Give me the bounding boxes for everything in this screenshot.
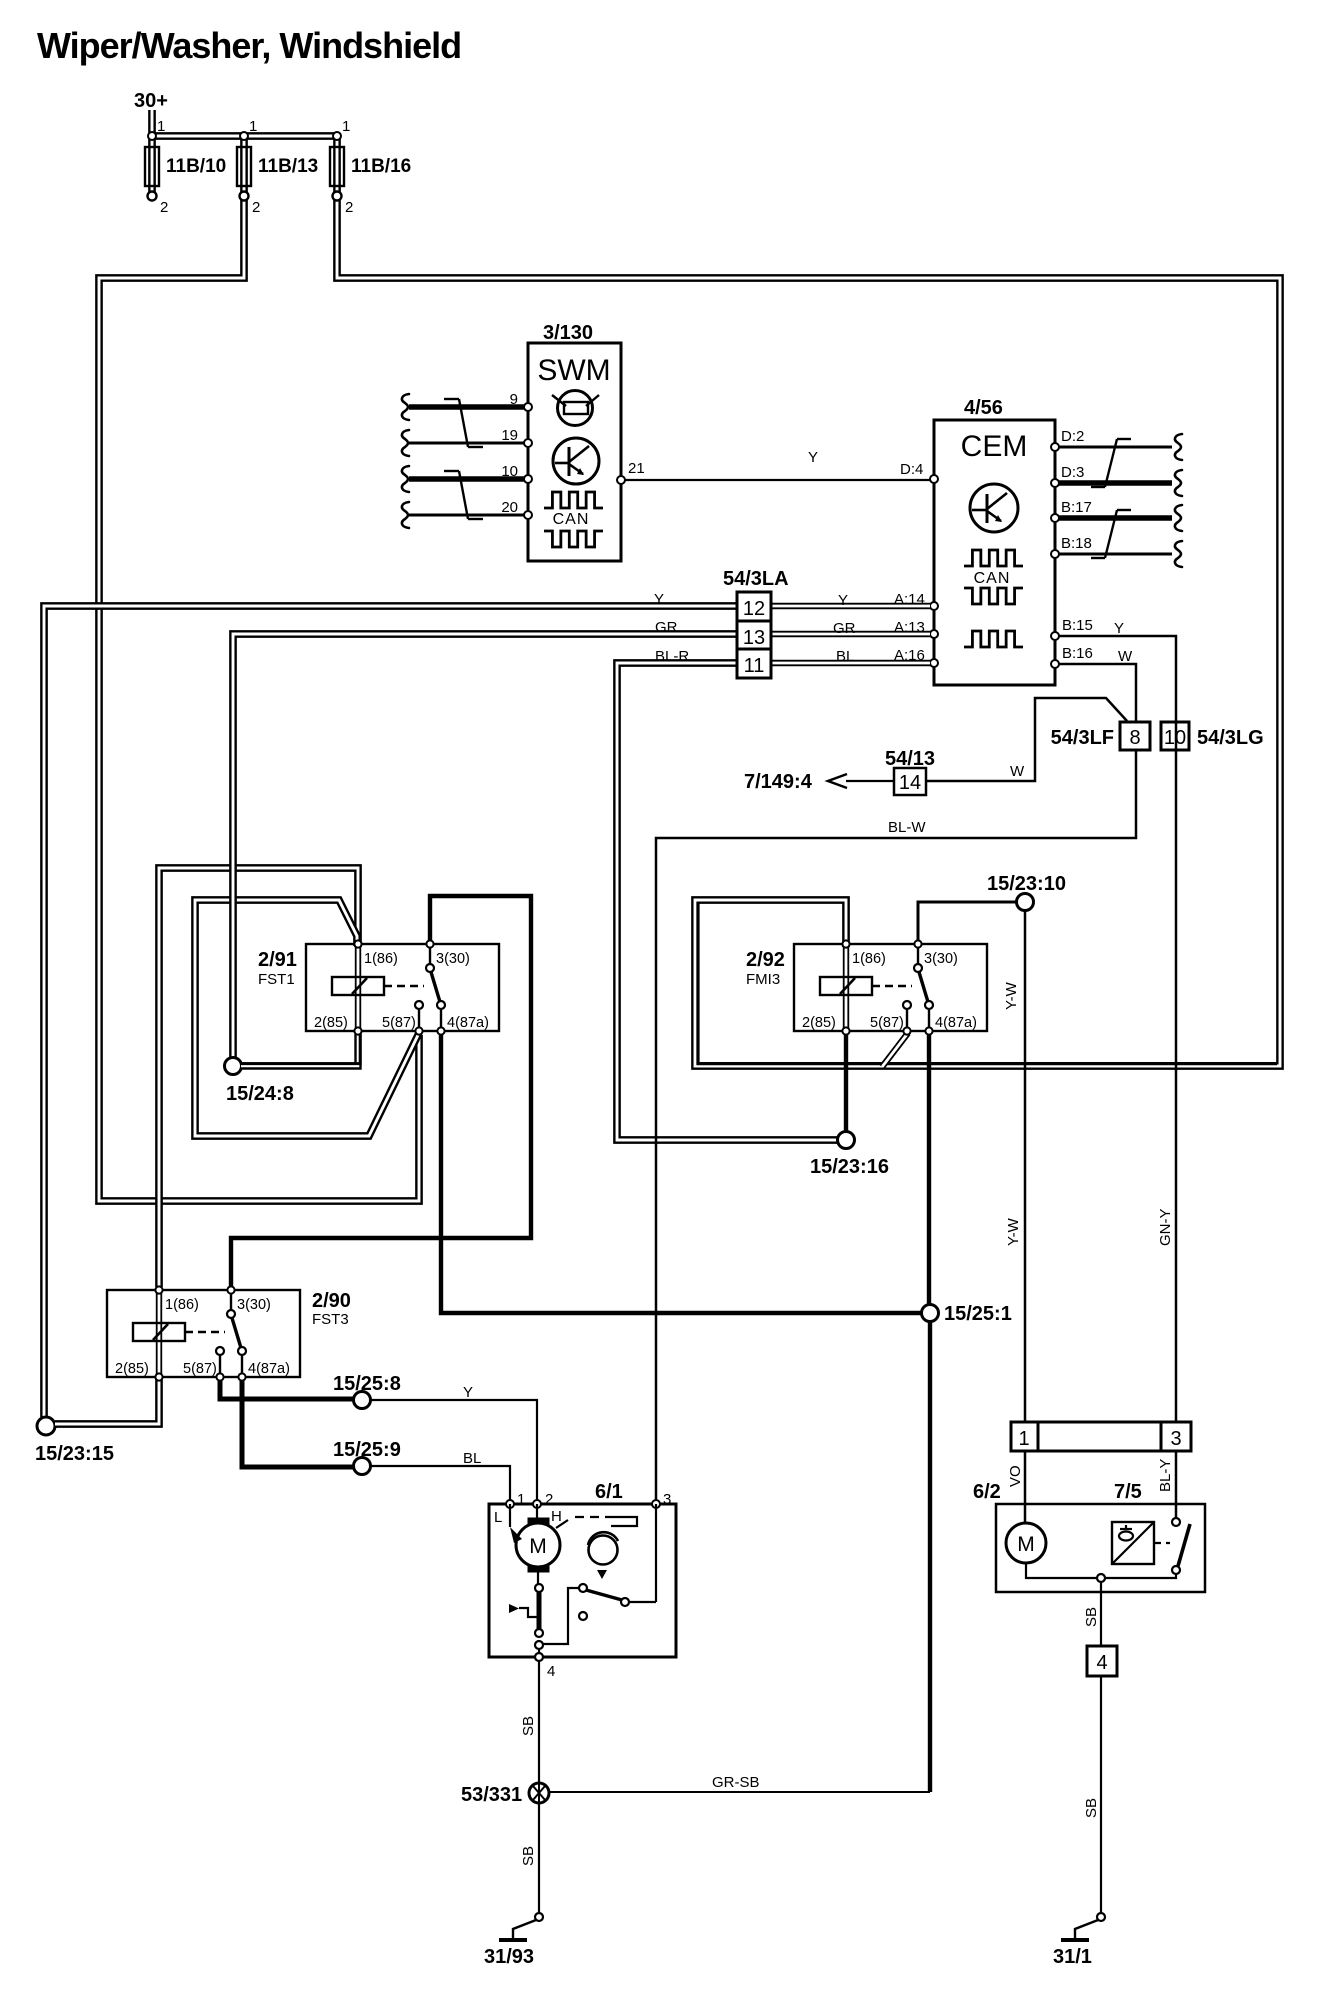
svg-text:Y: Y: [463, 1384, 473, 1401]
node 15/23:15: [37, 1417, 55, 1435]
6/1 motor to park switch link: [537, 1572, 539, 1584]
CEM CAN symbol: [964, 550, 1023, 566]
svg-text:1: 1: [342, 118, 350, 135]
module 4/56 CEM box: [934, 420, 1055, 685]
node 15/25:8: [354, 1392, 371, 1409]
svg-text:SB: SB: [1083, 1607, 1100, 1627]
node 15/25:1: [922, 1305, 939, 1322]
module 6/2 7/5 washer box: [996, 1504, 1205, 1592]
relay 2/90 dashed link: [185, 1331, 225, 1333]
wire loop relay 2/90 pin1 to relay 2/91 pin1: [159, 868, 358, 1287]
svg-text:FST3: FST3: [312, 1311, 349, 1328]
CEM left pins: [930, 475, 938, 483]
svg-text:5(87): 5(87): [870, 1015, 904, 1031]
ground 31/93: [535, 1913, 543, 1921]
svg-text:2: 2: [252, 199, 260, 216]
6/1 pin2 wire to motor H: [536, 1504, 538, 1518]
svg-text:M: M: [529, 1535, 547, 1558]
svg-text:13: 13: [743, 627, 765, 649]
wire 15/25:1 down to GR-SB corner: [928, 1322, 932, 1792]
6/1 switch: [579, 1584, 587, 1592]
node 53/331 ground distribution: [529, 1783, 549, 1803]
relay 2/90 FST3 box: [107, 1290, 300, 1377]
wire SWM pin9: [409, 404, 524, 410]
svg-text:BL-Y: BL-Y: [1157, 1459, 1174, 1492]
svg-text:20: 20: [501, 499, 518, 516]
svg-text:3/130: 3/130: [543, 322, 593, 344]
wire BL from 15/25:9 to wiper motor pin1: [371, 1466, 510, 1501]
svg-text:SB: SB: [1083, 1798, 1100, 1818]
svg-text:W: W: [1010, 763, 1025, 780]
svg-text:2: 2: [545, 1491, 553, 1508]
svg-text:A:16: A:16: [894, 647, 925, 664]
fuse 11B/13 terminal 2: [240, 192, 249, 201]
node 15/25:9: [354, 1458, 371, 1475]
relay 2/92 FMI3 box: [794, 944, 987, 1031]
svg-text:2/92: 2/92: [746, 949, 785, 971]
wire relay 2/92 pin3 to 15/23:10: [918, 902, 1016, 947]
svg-text:1: 1: [1018, 1428, 1029, 1450]
svg-text:BL-W: BL-W: [888, 819, 926, 836]
svg-text:SB: SB: [520, 1716, 537, 1736]
wire VO connector to washer motor: [1024, 1451, 1027, 1523]
svg-text:8: 8: [1129, 727, 1140, 749]
svg-text:CAN: CAN: [974, 570, 1011, 587]
twisted pair mark SWM 10/20: [444, 470, 459, 472]
wire Y-W from 15/23:10 to washer connector 1: [1024, 911, 1027, 1422]
CEM right pins: [1051, 443, 1059, 451]
6/1 park contact arrow: [509, 1604, 519, 1613]
svg-text:15/24:8: 15/24:8: [226, 1083, 294, 1105]
svg-text:3(30): 3(30): [237, 1297, 271, 1313]
module 3/130 SWM box: [528, 343, 621, 561]
wire relay 2/92 pin4 to 15/25:1: [927, 1034, 931, 1304]
svg-text:2(85): 2(85): [802, 1015, 836, 1031]
relay 2/91 coil wires: [355, 944, 361, 1031]
svg-text:30+: 30+: [134, 90, 168, 112]
svg-text:2(85): 2(85): [115, 1361, 149, 1377]
svg-text:1(86): 1(86): [364, 951, 398, 967]
svg-text:14: 14: [899, 772, 921, 794]
svg-text:H: H: [551, 1508, 562, 1525]
wire BL-Y connector to level switch: [1175, 1451, 1178, 1518]
relay 2/91 FST1 box: [306, 944, 499, 1031]
svg-text:54/13: 54/13: [885, 748, 935, 770]
svg-text:19: 19: [501, 427, 518, 444]
fuse 11B/13: [237, 147, 251, 186]
wire GR-SB to 53/331: [549, 1791, 930, 1793]
wire feed heavy edge along 1066: [698, 902, 1277, 1064]
svg-text:1(86): 1(86): [165, 1297, 199, 1313]
svg-text:4: 4: [1096, 1652, 1107, 1674]
washer internal ground wires: [1026, 1563, 1097, 1578]
wire fuse bus: [152, 132, 337, 140]
relay 2/91 pin terminals: [354, 940, 361, 947]
relay 2/90 coil wires: [156, 1290, 162, 1377]
node 15/23:10: [1017, 894, 1034, 911]
fuse 11B/16: [330, 147, 344, 186]
svg-text:54/3LF: 54/3LF: [1051, 727, 1114, 749]
svg-text:3: 3: [1170, 1428, 1181, 1450]
svg-text:7/149:4: 7/149:4: [744, 771, 813, 793]
connector pin 4 box: [1087, 1646, 1117, 1676]
svg-text:W: W: [1118, 648, 1133, 665]
svg-text:10: 10: [1164, 727, 1186, 749]
svg-text:GR-SB: GR-SB: [712, 1774, 760, 1791]
wire SWM pin20: [409, 514, 524, 517]
SWM pins: [524, 403, 532, 411]
svg-text:Y-W: Y-W: [1005, 1217, 1022, 1246]
svg-text:2/90: 2/90: [312, 1290, 351, 1312]
svg-text:BL: BL: [836, 648, 854, 665]
6/1 switch pivot wire to pin4 node: [543, 1588, 579, 1644]
module 6/1 wiper motor box: [489, 1504, 676, 1657]
wire 15/24:8 link heavy edge: [241, 1033, 360, 1064]
fuse 11B/10 terminal 2: [148, 192, 157, 201]
relay 2/90 pin terminals: [155, 1286, 162, 1293]
wire 15/24:8 to relay 2/91 pin 2(85): [241, 1034, 358, 1066]
svg-text:21: 21: [628, 460, 645, 477]
svg-text:BL-R: BL-R: [655, 648, 689, 665]
twisted pair mark CEM D:2/D:3: [1117, 438, 1131, 440]
svg-text:CEM: CEM: [961, 430, 1028, 463]
svg-text:12: 12: [743, 598, 765, 620]
svg-text:GN-Y: GN-Y: [1157, 1209, 1174, 1247]
wire 30+ feed: [148, 110, 156, 196]
svg-text:31/1: 31/1: [1053, 1946, 1092, 1968]
svg-text:B:17: B:17: [1061, 499, 1092, 516]
wire Y SWM:21 to CEM D:4: [625, 479, 930, 481]
wire 15/23:15 to relay 2/90 pin 2(85): [55, 1378, 159, 1424]
6/1 pins: [506, 1500, 514, 1508]
svg-text:11B/13: 11B/13: [258, 156, 318, 177]
wire arrow to 7/149:4: [846, 780, 894, 782]
fuse 11B/16 terminal 1: [333, 132, 341, 140]
wire SB wiper motor to 53/331: [538, 1661, 540, 1783]
svg-text:1: 1: [157, 118, 165, 135]
SWM steering wheel icon: [558, 391, 593, 426]
svg-text:4(87a): 4(87a): [935, 1015, 977, 1031]
svg-text:Y: Y: [1114, 620, 1124, 637]
svg-text:15/23:15: 15/23:15: [35, 1443, 114, 1465]
wire SB washer to ground: [1100, 1676, 1102, 1913]
wire relay 2/90 pin4 to 15/25:9: [242, 1380, 353, 1467]
twisted pair mark CEM B:17/B:18: [1117, 509, 1131, 511]
svg-text:2(85): 2(85): [314, 1015, 348, 1031]
relay 2/92 coil wires: [843, 944, 849, 1031]
wire BL-W from 54/3LF to wiper motor pin3: [656, 750, 1136, 1501]
svg-text:GR: GR: [655, 619, 678, 636]
ground 31/1: [1097, 1913, 1105, 1921]
svg-text:54/3LA: 54/3LA: [723, 568, 789, 590]
wire W CEM B:16 to 54/3LF: [1059, 664, 1136, 722]
fuse 11B/16 terminal 2: [333, 192, 342, 201]
svg-text:15/25:1: 15/25:1: [944, 1303, 1012, 1325]
wire fuse 11B/13 to relays feed: [99, 136, 419, 1201]
fuse 11B/10: [145, 147, 159, 186]
wire GR 54/3LA:13 to CEM A:13: [771, 631, 930, 637]
svg-text:54/3LG: 54/3LG: [1197, 727, 1264, 749]
svg-text:B:18: B:18: [1061, 535, 1092, 552]
connector strip 1/3: [1011, 1422, 1191, 1451]
svg-text:5(87): 5(87): [183, 1361, 217, 1377]
node 15/23:16: [838, 1132, 855, 1149]
wire relay 2/91 pin3 to relay 2/90 pin3: [231, 896, 531, 1287]
svg-text:VO: VO: [1007, 1465, 1024, 1487]
svg-text:SB: SB: [520, 1846, 537, 1866]
connector 54/3LG pin 10: [1161, 722, 1189, 750]
relay 2/91 switch: [429, 944, 431, 966]
wire CEM B:17: [1059, 515, 1172, 521]
svg-text:6/2: 6/2: [973, 1481, 1001, 1503]
fuse 11B/13 terminal 1: [240, 132, 248, 140]
wire SWM pin10: [409, 476, 524, 482]
wire Y CEM B:15 to 54/3LG: [1059, 636, 1176, 1422]
svg-text:31/93: 31/93: [484, 1946, 534, 1968]
washer fluid level sensor 7/5: [1112, 1522, 1154, 1564]
svg-text:A:13: A:13: [894, 619, 925, 636]
svg-text:11: 11: [744, 655, 765, 677]
wire SWM pin19: [409, 442, 524, 445]
svg-text:15/23:10: 15/23:10: [987, 873, 1066, 895]
svg-text:2: 2: [160, 199, 168, 216]
relay 2/92 switch: [917, 944, 919, 966]
svg-text:SWM: SWM: [537, 354, 610, 387]
svg-text:B:15: B:15: [1062, 617, 1093, 634]
svg-text:15/25:8: 15/25:8: [333, 1373, 401, 1395]
wire GR from 54/3LA:13 to 15/24:8: [233, 634, 737, 1059]
6/1 pin 4: [535, 1653, 543, 1661]
CEM LIN symbol: [964, 631, 1023, 647]
wire BL 54/3LA:11 to CEM A:16: [771, 660, 930, 666]
svg-text:1: 1: [517, 1491, 525, 1508]
svg-text:Y: Y: [654, 591, 664, 608]
svg-text:6/1: 6/1: [595, 1481, 623, 1503]
SWM K icon: [553, 438, 599, 484]
washer motor M 6/2: [1006, 1523, 1046, 1563]
svg-text:15/23:16: 15/23:16: [810, 1156, 889, 1178]
wire relay 2/90 pin5 to 15/25:8: [220, 1380, 353, 1399]
svg-text:5(87): 5(87): [382, 1015, 416, 1031]
svg-text:53/331: 53/331: [461, 1784, 522, 1806]
svg-text:7/5: 7/5: [1114, 1481, 1142, 1503]
wire CEM D:3: [1059, 480, 1172, 486]
wire relay 2/92 pin2 to 15/23:16: [844, 1034, 848, 1131]
6/1 pin3 internal wire: [655, 1504, 657, 1602]
svg-text:3: 3: [663, 1491, 671, 1508]
svg-text:15/25:9: 15/25:9: [333, 1439, 401, 1461]
svg-text:FST1: FST1: [258, 971, 295, 988]
svg-text:1: 1: [249, 118, 257, 135]
wire W from 54/13 to 54/3LF: [926, 698, 1127, 781]
6/1 dashed mechanical link: [556, 1520, 568, 1528]
svg-text:2: 2: [345, 199, 353, 216]
relay 2/90 coil: [133, 1323, 185, 1341]
svg-text:Y: Y: [838, 592, 848, 609]
6/1 pin1 wire to motor L: [509, 1504, 511, 1527]
wire loop relay 2/91 pin5 to pin1: [195, 900, 419, 1136]
wire fuse 11B/16 to relay 2/92 coil feed: [337, 136, 1280, 1066]
level switch: [1172, 1518, 1180, 1526]
svg-text:11B/16: 11B/16: [351, 156, 411, 177]
svg-text:Y: Y: [808, 449, 818, 466]
svg-text:Y-W: Y-W: [1003, 981, 1020, 1010]
svg-text:3(30): 3(30): [436, 951, 470, 967]
wire Y from 15/25:8 to wiper motor pin2: [371, 1400, 537, 1501]
relay 2/92 dashed link: [872, 985, 912, 987]
svg-text:3(30): 3(30): [924, 951, 958, 967]
CEM K icon: [970, 484, 1018, 532]
relay 2/91 coil: [332, 977, 384, 995]
svg-text:D:4: D:4: [900, 461, 923, 478]
svg-text:11B/10: 11B/10: [166, 156, 226, 177]
svg-text:A:14: A:14: [894, 591, 925, 608]
SWM CAN symbol: [544, 492, 603, 508]
svg-text:M: M: [1017, 1533, 1035, 1556]
6/1 motor M: [516, 1523, 560, 1567]
relay 2/90 switch: [230, 1290, 232, 1312]
svg-text:Wiper/Washer, Windshield: Wiper/Washer, Windshield: [37, 25, 461, 66]
twisted pair mark SWM 9/19: [444, 398, 459, 400]
6/1 cam symbol: [589, 1536, 618, 1565]
relay 2/91 dashed link: [384, 985, 424, 987]
node 15/24:8: [225, 1058, 242, 1075]
svg-text:D:3: D:3: [1061, 464, 1084, 481]
wire relay 2/91 pin4 to 15/25:1: [441, 1034, 921, 1313]
wire CEM B:18: [1059, 553, 1172, 556]
wire Y 54/3LA:12 to CEM A:14: [771, 603, 930, 609]
wire Y from 54/3LA:12 to 15/23:15: [44, 606, 737, 1417]
wire relay 2/92 pin5 diagonal to feed line: [882, 1033, 908, 1067]
relay 2/92 pin terminals: [842, 940, 849, 947]
svg-text:D:2: D:2: [1061, 428, 1084, 445]
svg-text:CAN: CAN: [553, 511, 590, 528]
svg-text:4(87a): 4(87a): [248, 1361, 290, 1377]
wire SB 53/331 to ground: [538, 1803, 540, 1913]
svg-text:1(86): 1(86): [852, 951, 886, 967]
svg-text:4/56: 4/56: [964, 397, 1003, 419]
svg-text:L: L: [494, 1509, 502, 1526]
svg-text:BL: BL: [463, 1450, 481, 1467]
connector 54/3LF pin 8: [1120, 722, 1150, 750]
fuse 11B/10 terminal 1: [148, 132, 156, 140]
svg-text:2/91: 2/91: [258, 949, 297, 971]
svg-text:B:16: B:16: [1062, 645, 1093, 662]
svg-text:4: 4: [547, 1663, 555, 1680]
svg-text:GR: GR: [833, 620, 856, 637]
wire CEM D:2: [1059, 446, 1172, 449]
svg-text:4(87a): 4(87a): [447, 1015, 489, 1031]
relay 2/92 coil: [820, 977, 872, 995]
wire BL-R from 54/3LA:11 to 15/23:16: [617, 663, 838, 1140]
svg-text:FMI3: FMI3: [746, 971, 780, 988]
